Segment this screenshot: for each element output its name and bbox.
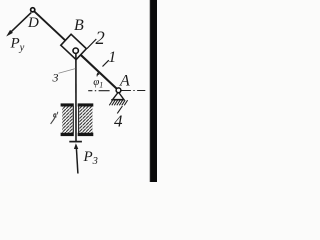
guide bracket right	[78, 103, 94, 136]
svg-text:D: D	[27, 15, 39, 31]
leader to label 3	[59, 69, 76, 74]
svg-text:B: B	[74, 17, 84, 34]
leader to label 2	[87, 39, 96, 49]
leader to label 1	[103, 60, 109, 66]
svg-text:4: 4	[114, 112, 123, 131]
wire rod 1 segment D to block B	[33, 11, 65, 41]
svg-text:3: 3	[52, 71, 59, 85]
rod 3 vertical	[75, 53, 77, 141]
centerline right of A (dash-dot)	[121, 90, 145, 92]
svg-text:φ1: φ1	[93, 76, 103, 89]
angle phi1 arrow	[97, 73, 98, 76]
support base line	[111, 99, 124, 101]
guide bracket left	[61, 103, 74, 136]
pin in block B	[73, 48, 78, 53]
wire rod 1 segment block B to A	[81, 55, 119, 91]
centerline left of A (dash-dot)	[88, 90, 111, 92]
support triangle at A	[113, 92, 124, 100]
force P3 arrow	[74, 143, 78, 173]
svg-text:1: 1	[108, 49, 116, 66]
slider block B	[61, 34, 87, 59]
ground hatch at A	[109, 100, 127, 105]
svg-text:Py: Py	[10, 36, 25, 54]
black page-edge band	[149, 0, 151, 182]
label c (guide)	[51, 114, 57, 124]
rod 3 end crossbar	[69, 141, 82, 143]
pin A	[116, 88, 121, 93]
force Py arrow	[6, 13, 31, 37]
svg-text:A: A	[119, 73, 130, 90]
svg-text:P3: P3	[83, 149, 98, 167]
leader to label 4	[117, 106, 122, 113]
svg-text:2: 2	[96, 29, 105, 49]
pin D	[31, 8, 35, 12]
